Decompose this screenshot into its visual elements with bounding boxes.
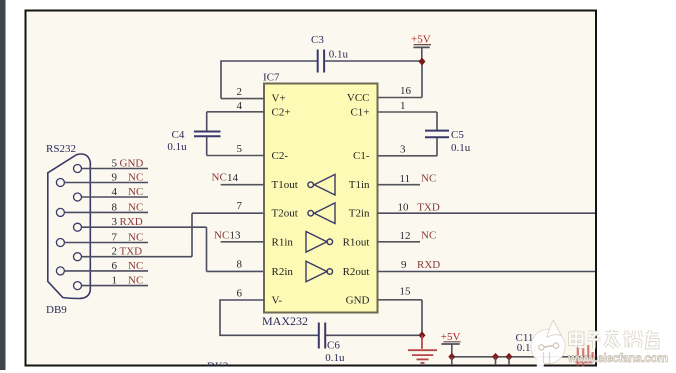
ground: [408, 335, 437, 363]
label DK2 partially cut: [207, 361, 228, 373]
wire T2out pin7: [192, 212, 264, 214]
svg-text:DB9: DB9: [46, 304, 67, 316]
svg-text:11: 11: [400, 173, 411, 185]
DB9 pin circle 5: [74, 165, 82, 173]
svg-text:10: 10: [398, 201, 410, 213]
watermark chinese text fa: [605, 330, 620, 348]
pin 1 stub C1+: [378, 100, 438, 112]
pin 13 stub R1in with NC label: [214, 230, 264, 242]
svg-text:2: 2: [237, 86, 243, 98]
pin 5 stub C2-: [207, 143, 264, 156]
svg-text:NC: NC: [214, 230, 229, 242]
svg-text:9: 9: [112, 172, 118, 184]
wire C3 left segment and V+ riser: [221, 98, 264, 100]
junction rail b: [506, 353, 513, 361]
watermark logo elecfans: [531, 320, 565, 372]
DB9 pin circle 6: [56, 267, 64, 275]
svg-text:VCC: VCC: [347, 92, 370, 104]
wire V- down-left path to C6: [220, 300, 318, 335]
svg-text:4: 4: [112, 186, 118, 198]
wire R2in pin8: [207, 270, 265, 272]
label 2 TXD: [112, 246, 143, 258]
wire DB9 pin8 NC: [64, 211, 148, 213]
wire RXD riser to R2in: [206, 227, 208, 271]
svg-text:RXD: RXD: [417, 259, 440, 271]
power +5V bottom: [441, 331, 461, 357]
svg-text:NC: NC: [212, 172, 227, 184]
svg-text:RXD: RXD: [120, 216, 143, 228]
svg-text:5: 5: [237, 143, 243, 155]
svg-text:C6: C6: [327, 339, 340, 351]
svg-text:16: 16: [400, 85, 412, 97]
wire DB9 pin6 NC: [64, 270, 148, 272]
svg-text:0.1u: 0.1u: [329, 49, 349, 61]
buffer T1 triangle: [308, 174, 335, 195]
junction +5V rail left: [448, 353, 455, 361]
svg-text:2: 2: [112, 246, 118, 258]
wire stub down junction b: [508, 357, 510, 365]
svg-text:C4: C4: [172, 129, 185, 141]
svg-text:R2out: R2out: [343, 266, 370, 278]
svg-text:15: 15: [400, 286, 412, 298]
capacitor C6: [319, 323, 325, 349]
svg-text:TXD: TXD: [417, 201, 440, 213]
svg-text:NC: NC: [128, 186, 143, 198]
svg-text:TXD: TXD: [120, 246, 143, 258]
svg-text:V-: V-: [272, 295, 283, 307]
buffer R2 triangle: [306, 261, 333, 282]
svg-text:R1out: R1out: [343, 236, 370, 248]
wire DB9 pin1 NC: [82, 285, 149, 287]
wire DB9 pin7 NC: [64, 242, 148, 244]
wire DB9 pin5 GND: [82, 168, 149, 170]
watermark chinese text shao: [623, 330, 641, 348]
capacitor C4: [194, 112, 221, 156]
svg-text:8: 8: [112, 201, 118, 213]
svg-text:3: 3: [400, 143, 406, 155]
pin 2 stub V+: [221, 86, 264, 99]
svg-text:NC: NC: [128, 232, 143, 244]
svg-text:1: 1: [400, 100, 406, 112]
capacitor C5: [425, 112, 449, 156]
svg-text:GND: GND: [346, 295, 370, 307]
junction at VCC/+5V: [419, 58, 426, 66]
svg-text:3: 3: [112, 216, 118, 228]
watermark chinese text you: [646, 330, 659, 348]
svg-text:T1in: T1in: [349, 179, 370, 191]
svg-text:IC7: IC7: [263, 72, 280, 84]
junction at GND/C6: [419, 331, 426, 339]
svg-text:7: 7: [112, 232, 118, 244]
svg-text:5: 5: [112, 158, 118, 170]
wire TXD riser to T2out: [191, 213, 193, 257]
label 6 NC: [112, 260, 144, 272]
svg-text:6: 6: [237, 288, 243, 300]
pin 15 stub GND: [378, 286, 423, 300]
svg-text:NC: NC: [128, 201, 143, 213]
DB9 pin circle 4: [74, 193, 82, 201]
pin 16 stub VCC: [378, 85, 423, 98]
wire C6 right segment to GND junction: [326, 334, 422, 336]
svg-text:MAX232: MAX232: [262, 314, 308, 328]
svg-text:14: 14: [227, 172, 239, 184]
svg-text:V+: V+: [272, 93, 286, 105]
buffer T2 triangle: [308, 203, 335, 224]
svg-text:NC: NC: [421, 173, 436, 185]
wire GND pin riser: [421, 300, 423, 336]
svg-text:NC: NC: [128, 172, 143, 184]
DB9 pin circle 7: [56, 239, 64, 247]
wire stub down from +5V junction: [451, 357, 453, 365]
DB9 pin circle 8: [56, 208, 64, 216]
svg-text:C3: C3: [311, 34, 324, 46]
pin 14 stub T1out with NC label: [212, 172, 265, 185]
wire DB9 pin3 RXD to riser: [82, 226, 207, 228]
svg-text:0.1u: 0.1u: [451, 142, 471, 154]
svg-text:R2in: R2in: [272, 266, 294, 278]
svg-text:6: 6: [112, 260, 118, 272]
wire +5V bottom rail: [452, 356, 595, 358]
svg-text:C2-: C2-: [272, 150, 289, 162]
wire VCC riser: [421, 61, 423, 98]
watermark chinese text zi: [587, 333, 601, 349]
svg-text:0.1u: 0.1u: [325, 352, 345, 364]
label 7 NC: [112, 232, 144, 244]
svg-text:0.1u: 0.1u: [167, 141, 187, 153]
wire stub down junction a: [495, 357, 497, 365]
label 8 NC: [112, 201, 144, 213]
DB9 pin circle 1: [74, 282, 82, 290]
svg-text:9: 9: [401, 259, 407, 271]
svg-text:T2out: T2out: [272, 208, 298, 220]
svg-text:T1out: T1out: [272, 179, 298, 191]
svg-text:8: 8: [237, 259, 243, 271]
svg-text:1: 1: [112, 275, 118, 287]
DB9 pin circle 3: [74, 223, 82, 231]
svg-text:C1-: C1-: [353, 150, 370, 162]
pin 3 stub C1-: [378, 143, 438, 155]
pin 10 wire T2in TXD net: [378, 201, 596, 213]
svg-text:13: 13: [230, 230, 242, 242]
label 5 GND: [112, 158, 144, 170]
label 3 RXD: [112, 216, 143, 228]
label 9 NC: [112, 172, 144, 184]
wire C3 right segment to +5V junction: [325, 60, 423, 62]
svg-text:NC: NC: [128, 260, 143, 272]
pin 4 stub C2+: [207, 100, 264, 112]
watermark red strokes: [576, 342, 593, 367]
svg-text:7: 7: [237, 200, 243, 212]
pin 11 stub T1in with NC label: [378, 173, 437, 186]
wire DB9 pin4 NC: [82, 196, 149, 198]
label 4 NC: [112, 186, 144, 198]
svg-text:+5V: +5V: [411, 34, 431, 46]
svg-text:NC: NC: [128, 275, 143, 287]
svg-text:4: 4: [237, 100, 243, 112]
wire DB9 pin2 TXD to riser: [82, 256, 193, 258]
watermark chinese text dian: [570, 330, 585, 347]
capacitor C3: [318, 50, 324, 73]
svg-text:www.elecfans.com: www.elecfans.com: [567, 351, 668, 365]
svg-text:T2in: T2in: [349, 208, 370, 220]
power +5V top: [411, 34, 431, 61]
svg-text:GND: GND: [120, 158, 144, 170]
junction rail a: [492, 353, 499, 361]
pin 9 wire R2out RXD net: [378, 259, 596, 272]
wire DB9 pin9 NC: [64, 182, 148, 184]
buffer R1 triangle: [306, 232, 333, 253]
svg-text:C2+: C2+: [272, 107, 291, 119]
svg-text:+5V: +5V: [441, 331, 461, 343]
pin 12 stub R1out with NC label: [378, 230, 437, 243]
op-amp IC7 MAX232 body: [262, 72, 378, 329]
svg-text:R1in: R1in: [272, 236, 294, 248]
svg-text:C1+: C1+: [350, 107, 369, 119]
svg-text:RS232: RS232: [46, 143, 76, 155]
label 1 NC: [112, 275, 144, 287]
connector DB9 body: [48, 154, 91, 299]
svg-text:12: 12: [400, 230, 411, 242]
DB9 pin circle 2: [74, 253, 82, 261]
svg-text:NC: NC: [421, 230, 436, 242]
svg-text:C5: C5: [451, 129, 464, 141]
DB9 pin circle 9: [56, 179, 64, 187]
